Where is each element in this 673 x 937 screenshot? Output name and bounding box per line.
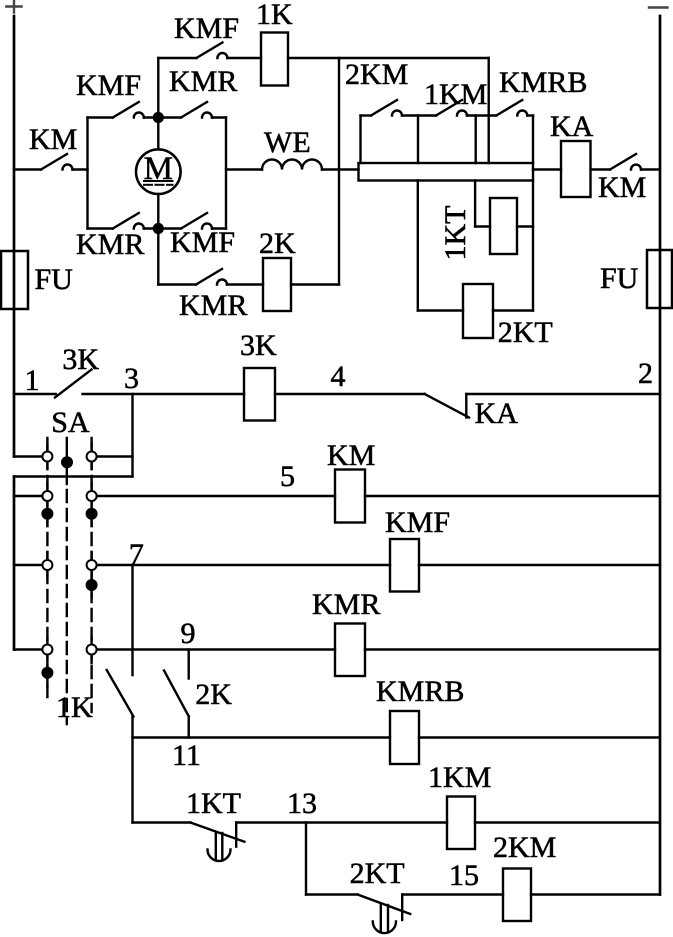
wire row 11 left — [133, 736, 391, 738]
wire tap x475.7 — [475, 116, 477, 164]
svg-text:2KT: 2KT — [350, 857, 405, 890]
wire right edge down to 2KT row — [532, 181, 534, 311]
SA contact circle B2 — [87, 491, 97, 501]
svg-text:KA: KA — [475, 397, 519, 430]
SA contact circle D1 — [42, 645, 52, 655]
wire bridge top-left segment — [88, 116, 113, 118]
wire SA row B left — [14, 495, 43, 497]
svg-text:KMF: KMF — [385, 506, 450, 539]
svg-text:FU: FU — [600, 262, 639, 295]
svg-text:KM: KM — [598, 171, 646, 204]
wire to top node — [144, 116, 181, 118]
wire row B (node 5) to KM coil — [97, 495, 336, 497]
wire motor bottom lead — [157, 194, 159, 229]
wire SA row C left — [14, 564, 43, 566]
svg-text:KMRB: KMRB — [376, 675, 464, 708]
svg-text:KMR: KMR — [169, 65, 237, 98]
svg-text:1K: 1K — [56, 691, 93, 724]
wire 1K lower vertical — [131, 717, 133, 823]
wire bridge top-right segment — [212, 116, 226, 118]
wire to bridge — [73, 168, 88, 170]
wire left bus upper — [13, 16, 16, 457]
motor dashed underline — [144, 184, 173, 186]
wire resistor right to KA — [533, 168, 561, 170]
svg-text:11: 11 — [172, 739, 201, 772]
wire to right bus — [641, 168, 660, 170]
contact KMRB — [496, 100, 527, 116]
SA contact circle C1 — [42, 560, 52, 570]
contact KA (NC) — [425, 394, 469, 418]
svg-text:15: 15 — [449, 859, 479, 892]
svg-text:SA: SA — [51, 406, 90, 439]
contact KM (main line, left) — [41, 154, 73, 170]
wire row 13 (node 13) to 1KM — [236, 821, 447, 823]
wire bridge bottom-right segment — [212, 227, 226, 229]
contact 1KM — [436, 100, 467, 116]
wire KMRB coil to bus — [419, 736, 660, 738]
knife switch 2K — [164, 671, 189, 717]
wire 2KT row left — [418, 309, 463, 311]
wire row C (node 7) to KMF coil — [97, 564, 391, 566]
fuse FU left — [1, 251, 28, 309]
wire SA row A right — [97, 455, 133, 457]
wire bottom branch riser from node — [157, 229, 159, 285]
coil 2KT — [463, 284, 493, 338]
SA contact circle D2 — [87, 645, 97, 655]
wire 2K to riser — [291, 283, 339, 285]
wire 1KT row left — [475, 225, 490, 227]
svg-text:3: 3 — [124, 362, 139, 395]
svg-text:2KM: 2KM — [345, 58, 408, 91]
svg-text:5: 5 — [280, 460, 295, 493]
wire 2K switch drop — [187, 650, 189, 679]
wire bridge bottom-left segment — [88, 227, 113, 229]
switch SA dashed line left — [46, 438, 48, 700]
wire row1 node4 segment — [275, 393, 425, 395]
wire KA to KM contact — [591, 168, 611, 170]
svg-text:2K: 2K — [195, 678, 232, 711]
contact 2KM — [371, 100, 402, 116]
wire KMRB to right end — [527, 114, 533, 116]
relay coil KA — [561, 141, 591, 197]
SA contact circle B1 — [42, 491, 52, 501]
wire riser x488.7 — [488, 58, 490, 163]
svg-text:KA: KA — [550, 110, 594, 143]
svg-text:FU: FU — [35, 263, 74, 296]
coil KM — [335, 470, 365, 523]
svg-text:7: 7 — [129, 538, 144, 571]
resistor braking (long box) — [359, 163, 534, 181]
svg-text:9: 9 — [181, 617, 196, 650]
wire row start — [361, 114, 372, 116]
plus terminal — [6, 0, 21, 13]
contact KMF (top branch) — [196, 43, 227, 59]
SA position dot row A middle — [61, 456, 73, 468]
junction dot motor bottom — [153, 223, 164, 234]
contact 2KT (NC time-delay) — [358, 895, 411, 921]
wire shunt switch row left end — [359, 116, 361, 164]
motor underline — [144, 180, 173, 182]
svg-text:3K: 3K — [62, 343, 99, 376]
wire tap below rect x417.8 — [417, 181, 419, 311]
contact KMF (bridge top-left) — [113, 102, 144, 118]
wire top branch left — [158, 57, 196, 59]
wire 2K lower vertical — [187, 716, 189, 737]
svg-text:13: 13 — [287, 787, 317, 820]
svg-text:KMRB: KMRB — [499, 66, 587, 99]
coil 3K — [244, 368, 275, 421]
wire 1KT right — [517, 225, 533, 227]
contact KM (right) — [610, 154, 641, 170]
coil 1KM — [447, 797, 475, 850]
wire row 15 (node 15) to 2KM — [402, 893, 503, 895]
wire 2KM coil to bus — [531, 893, 660, 895]
coil KMR — [335, 624, 365, 677]
contact KMR (bridge bottom-left) — [113, 213, 144, 229]
svg-text:2K: 2K — [259, 227, 296, 260]
wire row1 left — [14, 393, 56, 395]
wire tap below rect x475.1 — [474, 181, 476, 227]
svg-text:1K: 1K — [256, 0, 293, 31]
svg-text:2KT: 2KT — [498, 316, 553, 349]
wire row D (node 9) to KMR coil — [97, 648, 336, 650]
svg-text:1KT: 1KT — [439, 206, 472, 261]
wire left bus lower — [13, 477, 16, 650]
svg-text:WE: WE — [264, 126, 311, 159]
knife switch 3K — [55, 370, 92, 398]
wire right bus — [659, 16, 662, 895]
SA position dot row B right — [86, 508, 98, 520]
wire node7 riser — [131, 565, 133, 675]
wire right edge down — [532, 116, 534, 164]
wire bridge to WE — [226, 168, 262, 170]
wire tap x418 — [417, 116, 419, 164]
wire main line left — [14, 168, 41, 170]
junction dot motor top — [153, 112, 164, 123]
svg-text:4: 4 — [331, 360, 346, 393]
wire to bottom node — [144, 227, 181, 229]
wire riser x339 (top to bottom branch) — [338, 58, 340, 285]
svg-text:KMR: KMR — [312, 588, 380, 621]
wire KM coil to bus — [365, 495, 660, 497]
wire KMR coil to bus — [365, 648, 660, 650]
wire row 15 drop — [305, 823, 307, 895]
svg-text:KMF: KMF — [174, 12, 239, 45]
wire row1 right — [466, 393, 660, 395]
wire 1KM to KMRB — [467, 114, 496, 116]
svg-text:1KM: 1KM — [424, 78, 487, 111]
knife switch 1K — [107, 670, 134, 717]
svg-text:2: 2 — [638, 357, 653, 390]
wire bridge right edge — [225, 118, 227, 229]
resistor 1K — [261, 33, 288, 86]
svg-text:1: 1 — [25, 364, 40, 397]
inductor WE — [262, 160, 322, 170]
svg-text:KMF: KMF — [76, 69, 141, 102]
wire bridge left edge — [86, 118, 88, 229]
wire row 15 left — [306, 893, 358, 895]
wire row 13 left — [133, 821, 191, 823]
coil 2KM — [503, 869, 531, 922]
svg-text:KM: KM — [29, 123, 77, 156]
svg-text:KMF: KMF — [170, 226, 235, 259]
SA stems row A — [47, 444, 91, 469]
coil 1KT — [490, 198, 517, 254]
wire top branch riser (node top) — [157, 58, 159, 118]
contact KMF (bridge bottom-right) — [181, 213, 212, 229]
fuse FU right — [647, 250, 672, 308]
contact 1KT (NC time-delay) — [190, 823, 244, 847]
switch SA dashed line right — [90, 438, 92, 712]
wire 2KM to 1KM — [402, 114, 436, 116]
SA contact circle A2 — [87, 452, 97, 462]
coil KMF — [390, 539, 419, 592]
contact KMR (bridge top-right) — [181, 102, 212, 118]
wire 1KM coil to bus — [475, 821, 660, 823]
SA stems row C — [47, 552, 91, 597]
wire motor top lead — [157, 118, 159, 150]
switch SA dashed line middle — [66, 438, 68, 724]
svg-text:KMR: KMR — [179, 289, 247, 322]
wire 1K to corner — [288, 57, 489, 59]
wire bottom branch left — [158, 283, 196, 285]
wire node3 riser — [131, 394, 133, 477]
svg-text:1KM: 1KM — [428, 761, 491, 794]
wire jog (node3 to lower bus) — [14, 475, 133, 477]
wire row1 node3 segment — [83, 393, 245, 395]
svg-text:KMR: KMR — [76, 228, 144, 261]
SA position dot row B left — [41, 508, 53, 520]
wire SA row D left — [14, 648, 43, 650]
svg-text:3K: 3K — [240, 329, 277, 362]
svg-text:M: M — [144, 151, 173, 187]
SA contact circle C2 — [87, 560, 97, 570]
svg-text:1KT: 1KT — [186, 787, 241, 820]
svg-text:2KM: 2KM — [493, 831, 556, 864]
wire to 1K — [227, 57, 261, 59]
SA position dot row D left — [41, 667, 53, 679]
delay dashpot 2KT — [373, 905, 396, 933]
SA position dot row C right — [86, 579, 98, 591]
wire to 2K — [227, 283, 263, 285]
motor M circle — [136, 149, 181, 194]
wire KMF coil to bus — [419, 564, 660, 566]
minus terminal — [649, 6, 668, 8]
wire WE to resistor — [322, 168, 359, 170]
wire SA row A left — [14, 455, 43, 457]
coil KMRB — [390, 711, 419, 764]
SA contact circle A1 — [42, 452, 52, 462]
resistor 2K — [263, 258, 291, 311]
svg-text:KM: KM — [327, 439, 375, 472]
delay dashpot 1KT — [208, 833, 231, 861]
SA stems row D — [47, 637, 91, 687]
contact KMR (bottom branch) — [196, 269, 227, 285]
wire 2KT right — [493, 309, 533, 311]
SA stems row B — [47, 483, 91, 526]
